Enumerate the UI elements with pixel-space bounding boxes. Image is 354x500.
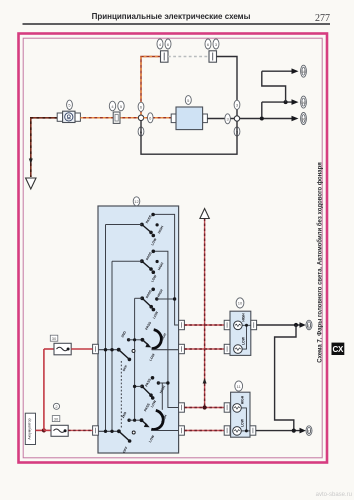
light switch unit block	[98, 206, 179, 453]
oval label on wire left of node B	[225, 114, 231, 124]
switch g3 PASS contact	[145, 288, 155, 299]
switch g4 arc PASS-HIGH-LOW	[145, 320, 168, 361]
fuse F2	[209, 51, 217, 62]
switch g6 arc PASS-HIGH-LOW	[143, 402, 168, 443]
left tab row4	[93, 426, 99, 435]
node B junction circle	[234, 116, 239, 121]
oval label terminal row3	[301, 113, 307, 125]
oval label below node A	[138, 127, 144, 136]
headlight H1 right pin	[251, 320, 257, 329]
wire loop under relay (black)	[141, 121, 237, 155]
headlight H1 internal wiring	[242, 324, 251, 349]
oval label above CB2	[53, 403, 59, 409]
wire jog J2 up	[262, 71, 286, 102]
svg-text:avto-sbase.ru: avto-sbase.ru	[316, 492, 352, 498]
switch g1 HIGH contact	[156, 223, 165, 234]
right tab row1	[179, 320, 185, 329]
headlight H2 left pin 1	[224, 403, 230, 412]
wire arc g4 output to right tab row2	[152, 349, 179, 351]
headlight H2 body	[231, 392, 250, 437]
right tab row2	[179, 344, 185, 353]
right tab row4	[179, 426, 185, 435]
junction dot H1 output	[294, 323, 298, 327]
label plate above CB2	[52, 416, 60, 422]
wire F1 to F2 (gray dashed)	[168, 56, 209, 58]
wire right row2 tab to headlight 1 (red dashed)	[184, 348, 224, 350]
junction dots row4	[104, 429, 121, 433]
headlight H2 low-beam bulb	[233, 418, 245, 435]
arrow terminal H1 output	[300, 322, 306, 328]
junction J2	[284, 100, 288, 104]
wire F2 down to node B (black)	[217, 57, 238, 116]
oval label terminal H1	[306, 320, 312, 330]
arrow terminal row3	[292, 116, 299, 122]
svg-text:СХ: СХ	[332, 345, 343, 354]
svg-text:HIGH: HIGH	[241, 313, 245, 322]
switch g1 PASS contact	[145, 213, 155, 224]
wire row1 horizontal	[262, 70, 292, 72]
svg-text:30: 30	[301, 116, 306, 121]
svg-text:HIGH: HIGH	[240, 395, 244, 404]
wire battery to junction (red)	[36, 429, 44, 431]
switch g6 open contact	[132, 431, 135, 434]
inline connector X1	[113, 112, 120, 123]
wire node A up to fuse F1 (red/orange)	[141, 57, 161, 116]
junction dots row2	[104, 348, 121, 352]
svg-text:30: 30	[52, 336, 57, 341]
oval label terminal row1	[301, 65, 307, 77]
wire junction to breaker CB2 (red)	[44, 429, 51, 431]
oval label above headlight H2	[235, 381, 243, 391]
svg-text:56: 56	[301, 100, 306, 105]
wire J1 up to row2	[261, 102, 263, 116]
switch g4 OFF lever	[119, 350, 132, 372]
oval label above relay K1	[185, 96, 191, 105]
switch g5 lever and common	[133, 385, 158, 409]
switch g6 selector lever	[140, 418, 150, 427]
wire headlight H2 output (black)	[256, 430, 300, 432]
oval label above switch block	[133, 197, 140, 206]
svg-text:LOW: LOW	[241, 336, 245, 345]
wire g2 PASS to right tab row3	[153, 251, 178, 407]
switch g2 PASS contact	[145, 250, 155, 261]
oval label terminal H2	[306, 426, 312, 436]
left tab row2	[93, 344, 99, 353]
relay K1	[171, 107, 207, 130]
headlight H1 left pin 1	[224, 320, 230, 329]
ground link wire between headlight outputs (black)	[275, 325, 296, 431]
headlight H2 internal wiring	[241, 408, 250, 433]
svg-text:Схема 7. Фары головного света.: Схема 7. Фары головного света. Автомобил…	[316, 162, 323, 363]
headlight H2 right pin	[250, 426, 256, 435]
header rule	[23, 23, 331, 25]
oval label pair above connector	[109, 101, 124, 111]
oval label terminal row2	[301, 96, 307, 108]
svg-text:Принципиальные электрические с: Принципиальные электрические схемы	[92, 12, 251, 21]
svg-text:10: 10	[238, 301, 243, 306]
switch g1 lever and common	[106, 223, 158, 247]
wire node A to relay K1 (red/orange)	[144, 117, 172, 119]
headlight H1 high-beam bulb	[234, 313, 246, 330]
switch g4 open contact	[132, 349, 135, 352]
oval label above headlight H1	[236, 298, 244, 308]
svg-text:58: 58	[301, 69, 306, 74]
pink inner frame	[23, 38, 322, 458]
mechanical link dashed line	[120, 361, 122, 429]
wire node B to junction J1	[240, 118, 292, 120]
headlight H2 left pin 2	[224, 426, 230, 435]
wire arc g6 output to right tab row4	[151, 430, 178, 432]
switch g4 2ND contact and wire	[120, 330, 142, 342]
wire CB1 to switch block left tab row2 (red)	[71, 348, 92, 350]
headlight H1 left pin 2	[224, 344, 230, 353]
row2 feed wire from left tab to g4 pivot	[98, 349, 119, 351]
oval label on vertical above node B	[234, 100, 240, 109]
wire headlight H1 output (black)	[257, 324, 300, 326]
switch g4 selector lever	[141, 338, 152, 348]
wire ignition to connector (red/orange)	[80, 117, 138, 119]
ignition switch S1	[57, 111, 80, 122]
oval label on vertical above node A	[138, 102, 144, 111]
chapter tab CX	[332, 343, 345, 355]
switch g3 lever and common	[135, 296, 160, 319]
direction marker on red feed wire	[203, 378, 207, 384]
oval label below node B	[234, 127, 240, 136]
oval label on wire right of node A	[148, 113, 154, 123]
wire right row3 tab to headlight 2 (red dashed)	[184, 407, 224, 409]
arrow terminal row1	[292, 68, 299, 74]
switch g2 HIGH contact	[156, 260, 165, 271]
switch g6 OFF lever	[119, 431, 132, 453]
direction marker on left wire	[29, 159, 33, 165]
wire right row1 tab to headlight 1 (red dashed)	[184, 324, 224, 326]
svg-text:31: 31	[307, 428, 312, 433]
headlight H1 low-beam bulb	[234, 336, 246, 353]
switch g3 HIGH contact wired to v1	[155, 288, 176, 301]
svg-text:277: 277	[315, 13, 330, 24]
headlight H2 high-beam bulb	[233, 395, 245, 412]
up arrow terminal of red feed	[200, 209, 209, 219]
wire g1 PASS to right tab row1	[153, 214, 179, 325]
label plate above CB1	[50, 335, 58, 341]
ground-style down arrow terminal	[26, 178, 36, 189]
fuse F1	[161, 51, 169, 62]
headlight H1 body	[230, 311, 251, 355]
switch g5 HIGH contact wired to v2	[157, 381, 170, 394]
battery junction dot	[42, 428, 46, 432]
svg-text:12: 12	[134, 199, 139, 204]
trunk wire from g1 common down	[105, 225, 107, 432]
svg-text:Аккумулятор: Аккумулятор	[28, 418, 32, 439]
right tab row3	[179, 403, 185, 412]
row4 feed wire from left tab to g6 pivot	[98, 430, 119, 432]
circuit breaker CB1	[54, 343, 71, 355]
arrow terminal row2	[292, 99, 299, 105]
junction dot on row3	[203, 405, 207, 409]
trunk wire from g2 common down	[111, 261, 113, 431]
oval labels above fuse F2	[205, 39, 219, 49]
svg-text:30: 30	[54, 417, 59, 422]
red riser wire junction to breaker CB1	[43, 349, 45, 430]
oval labels above fuse F1	[157, 39, 171, 49]
pink outer frame	[19, 34, 328, 463]
red feed wire vertical to other schema	[204, 219, 206, 408]
svg-text:LOW: LOW	[240, 418, 244, 427]
wire right row4 tab to headlight 2 (red dashed)	[184, 430, 224, 432]
wire relay to node B (black)	[207, 118, 234, 120]
oval label above ignition switch	[67, 100, 73, 109]
switch g6 2ND contact and wire	[121, 411, 142, 422]
switch g5 PASS contact	[144, 376, 154, 387]
battery box	[25, 413, 35, 444]
wire g5 HIGH branch down to arc g6	[161, 383, 163, 410]
wire riser to CB1 (red)	[44, 348, 54, 350]
circuit breaker CB2	[51, 425, 68, 436]
arrow terminal H2 output	[300, 428, 306, 434]
svg-text:31: 31	[307, 323, 312, 328]
switch g2 lever and common	[112, 259, 158, 283]
wire from ignition switch to left and down	[31, 118, 57, 177]
junction J1	[260, 117, 264, 121]
trunk wire from g3 common down	[134, 298, 136, 420]
node A junction circle	[138, 115, 143, 120]
junction dot H2 output	[292, 429, 296, 433]
wire row2 horizontal	[262, 101, 292, 103]
wire CB2 to switch block left tab row4 (red dashed)	[68, 429, 92, 431]
